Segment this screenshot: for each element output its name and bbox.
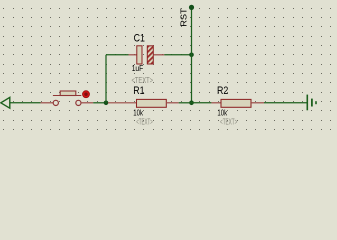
button SW pin left: [41, 102, 54, 104]
svg-text:RST: RST: [179, 8, 188, 27]
button cap: [60, 91, 76, 96]
button left contact circle: [53, 100, 58, 105]
svg-text:1uF: 1uF: [132, 64, 144, 73]
wire: corner to C1 left pin: [106, 54, 129, 56]
wire: button to node A: [93, 102, 106, 104]
capacitor C1 right plate (hatched): [147, 46, 153, 64]
svg-text:<TEXT>: <TEXT>: [132, 76, 154, 85]
wire: C1 to node B: [164, 54, 191, 56]
wire: node C to R2: [192, 102, 212, 104]
wire: R1 to node C: [179, 102, 192, 104]
capacitor C1 pin left: [129, 54, 137, 56]
ground terminal: [307, 95, 316, 111]
background paper: [0, 0, 337, 138]
RST net wire (vertical): [191, 8, 193, 103]
resistor R2 pin left: [211, 102, 221, 104]
wire: terminal to button: [10, 102, 41, 104]
svg-text:R1: R1: [133, 85, 144, 97]
resistor R2 pin right: [251, 102, 264, 104]
wire: R2 to ground: [264, 102, 307, 104]
button blade line: [53, 95, 81, 97]
svg-text:<TEXT>: <TEXT>: [136, 118, 153, 127]
input terminal (left): [1, 97, 10, 108]
resistor R2 body: [221, 99, 251, 107]
button SW pin right: [81, 102, 93, 104]
resistor R1 body: [137, 99, 167, 107]
svg-text:10k: 10k: [133, 108, 143, 117]
capacitor C1 pin right: [153, 54, 164, 56]
resistor R1 pin right: [166, 102, 179, 104]
svg-text:10k: 10k: [217, 108, 227, 117]
node B junction dot: [189, 53, 194, 58]
button actuator red dot: [83, 91, 90, 98]
node A junction dot: [104, 101, 109, 106]
resistor R1 pin left: [108, 102, 137, 104]
svg-text:<TEXT>: <TEXT>: [220, 118, 237, 127]
button right contact circle: [76, 100, 81, 105]
node C junction dot: [189, 101, 194, 106]
wire: node A up to C1 row: [105, 55, 107, 103]
capacitor C1 left plate: [137, 46, 142, 64]
svg-text:R2: R2: [217, 85, 228, 97]
RST wire end dot: [189, 5, 194, 10]
svg-text:C1: C1: [134, 33, 145, 45]
